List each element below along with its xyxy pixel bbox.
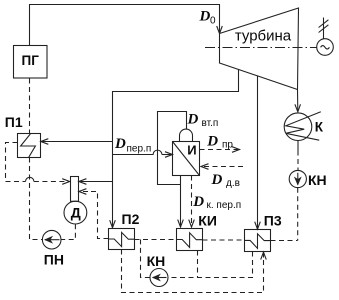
svg-text:КН: КН: [147, 253, 166, 269]
wire branch steam to П1: [41, 141, 112, 143]
heater КИ box: [177, 229, 203, 251]
svg-text:П2: П2: [122, 211, 140, 227]
svg-text:пр: пр: [222, 140, 233, 151]
dashed Dпр blowdown out of И: [200, 149, 240, 151]
svg-text:D: D: [192, 194, 204, 210]
drain pump КН bottom: [150, 269, 168, 287]
svg-text:пер.п: пер.п: [127, 144, 152, 155]
П1 drain hop arc over feed line: [26, 177, 34, 181]
deaerator circle: [64, 201, 87, 224]
heater П1 zigzag: [21, 134, 36, 157]
svg-text:D: D: [114, 136, 126, 152]
КН bottom pump arrow: [153, 277, 167, 279]
heater П2 box: [109, 229, 135, 250]
svg-text:D: D: [199, 9, 211, 25]
svg-text:0: 0: [210, 16, 216, 27]
grid connection symbol: [319, 18, 329, 39]
ПН pump arrow: [45, 239, 60, 241]
boiler ПГ: [14, 46, 48, 79]
dashed П1 drain arrow into Д: [34, 181, 69, 183]
heater КИ zigzag: [177, 233, 203, 248]
dashed Dк.пер.п from И bottom to КИ: [191, 176, 193, 227]
svg-text:д.в: д.в: [226, 178, 240, 189]
condensate pump КН right: [289, 170, 306, 187]
dashed condensate bus КИ-П3: [203, 239, 245, 241]
generator G: [317, 39, 334, 56]
svg-text:КН: КН: [308, 172, 327, 188]
condenser K circle: [284, 113, 312, 141]
heater П1 box: [18, 134, 41, 158]
svg-text:Д: Д: [71, 204, 81, 220]
wire extraction 2 to П3: [257, 76, 259, 229]
svg-text:П1: П1: [5, 114, 23, 130]
wire turbine exhaust to condenser: [297, 90, 299, 112]
svg-text:вт.п: вт.п: [202, 118, 219, 129]
КН right pump arrow: [297, 173, 299, 185]
dashed feedwater Д to ПН: [61, 224, 75, 239]
heater П3 box: [245, 230, 271, 252]
svg-text:D: D: [206, 133, 218, 149]
shaft dash-dot line: [205, 47, 317, 49]
evaporator И box: [173, 142, 200, 176]
dashed condensate bus П3 to downcomer: [271, 240, 298, 242]
turbine body: [220, 8, 299, 90]
svg-text:D: D: [211, 172, 223, 188]
condenser bottom stub: [297, 141, 299, 151]
wire into КИ top: [180, 185, 182, 227]
heater П3 zigzag: [245, 234, 271, 249]
svg-text:КИ: КИ: [198, 213, 217, 229]
arrow into П2 top: [112, 222, 114, 228]
dashed КИ drain down: [197, 251, 199, 278]
wire И bottom stub: [180, 176, 182, 185]
dashed feedwater П1 down to ПН corner: [30, 158, 43, 240]
evaporator diagonal: [173, 142, 200, 176]
svg-text:И: И: [187, 143, 196, 158]
svg-text:турбина: турбина: [235, 28, 292, 45]
wire D0 arrow into turbine inlet: [219, 25, 221, 33]
dashed feedwater ПГ-П1: [29, 79, 31, 134]
dashed П3 drain down and left to КН: [168, 252, 252, 278]
heater П2 zigzag: [109, 232, 135, 246]
svg-text:ПН: ПН: [44, 251, 64, 267]
feed pump ПН: [42, 230, 61, 249]
svg-text:к. пер.п: к. пер.п: [207, 200, 242, 211]
wire main steam ПГ to turbine D0: [30, 5, 220, 46]
dashed condensate bus П2-КИ: [135, 239, 177, 241]
svg-text:К: К: [315, 120, 324, 135]
dashed КН pump down to bus: [297, 188, 299, 241]
dashed КН discharge up into bus: [141, 240, 150, 278]
wire branch steam to deaerator: [79, 181, 112, 183]
svg-text:D: D: [187, 112, 199, 128]
dashed П2 condensate to Д: [88, 192, 109, 239]
wire Dвт.п loop from dome down to КИ: [158, 112, 187, 185]
deaerator column: [71, 177, 79, 202]
dashed П1 drain left and down: [6, 143, 26, 182]
wire branch Dпер.п to evaporator with hop over Dвт.п line: [113, 150, 162, 154]
svg-text:ПГ: ПГ: [22, 53, 40, 68]
condenser cooling zigzag: [286, 112, 321, 141]
dashed condenser to КН pump: [297, 151, 299, 171]
evaporator dome: [180, 129, 193, 141]
svg-text:П3: П3: [264, 212, 282, 228]
dashed П2 drain bottom bus to П3: [122, 250, 264, 293]
dashed Dд.в makeup water into И: [202, 166, 244, 168]
wire extraction 1 down and left to П2: [113, 70, 239, 222]
generator tilde: [321, 46, 330, 49]
